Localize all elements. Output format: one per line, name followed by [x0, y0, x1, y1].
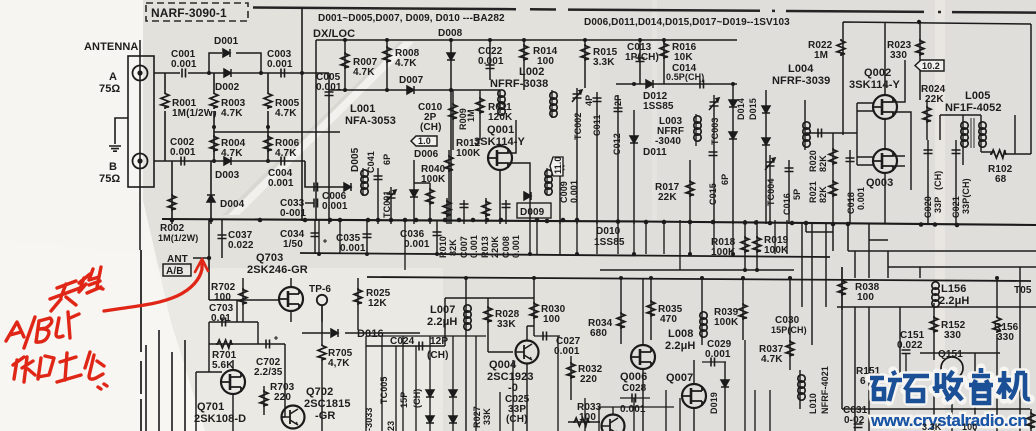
svg-text:330: 330 [944, 330, 961, 341]
capacitor C030 [771, 315, 807, 335]
svg-text:5P: 5P [792, 189, 802, 200]
wire R701 row [209, 322, 258, 372]
svg-text:Q702: Q702 [306, 386, 333, 398]
capacitor C015 [708, 152, 730, 205]
resistor R028 [484, 298, 520, 345]
svg-text:A/B: A/B [166, 266, 184, 277]
svg-text:100K: 100K [764, 245, 789, 256]
svg-text:L001: L001 [350, 103, 375, 115]
diode D005 [344, 147, 361, 191]
svg-text:D001~D005,D007, D009, D010 ---: D001~D005,D007, D009, D010 ---BA282 [318, 13, 505, 24]
diode D007 [399, 75, 424, 94]
transistor Q006 [620, 278, 655, 431]
svg-text:(CH): (CH) [506, 414, 528, 425]
resistor R020 R021 [808, 133, 837, 224]
tag 1.0 [411, 136, 437, 146]
svg-text:10K: 10K [674, 52, 693, 63]
svg-text:L008: L008 [668, 328, 693, 340]
svg-text:2SK246-GR: 2SK246-GR [247, 264, 308, 276]
svg-text:3.3K: 3.3K [922, 422, 942, 431]
resistor R006 [264, 127, 300, 161]
capacitor C151 [897, 330, 925, 376]
diode D016 [331, 328, 384, 340]
resistor R035 [647, 278, 683, 340]
diode ladder D018 [449, 390, 457, 423]
resistor R151 [856, 366, 881, 387]
svg-text:C018: C018 [846, 192, 856, 214]
svg-text:2SC1815: 2SC1815 [304, 398, 351, 410]
svg-text:330: 330 [890, 50, 907, 61]
node dots top [207, 38, 735, 163]
svg-text:1SS85: 1SS85 [643, 101, 674, 112]
svg-text:220K: 220K [490, 236, 500, 258]
svg-text:220: 220 [580, 374, 597, 385]
top border line [253, 8, 1036, 13]
resistor R032 [567, 356, 603, 400]
svg-text:33K: 33K [497, 319, 516, 330]
resistor R702 [211, 278, 247, 322]
inductor L006 vertical labels [364, 376, 422, 431]
wire TP6 to D016 row [302, 305, 420, 431]
svg-text:D004: D004 [220, 199, 245, 210]
node rail junction [917, 20, 921, 24]
svg-text:L004: L004 [788, 63, 814, 75]
capacitor C029 [702, 339, 732, 367]
diode D001 [214, 36, 239, 57]
svg-text:0.001: 0.001 [511, 235, 521, 258]
resistor R013 above bus [480, 198, 500, 258]
capacitor C028 [620, 383, 650, 415]
svg-text:2.2/35: 2.2/35 [254, 367, 283, 378]
resistor R018 [711, 220, 749, 270]
red handwriting huan dian ya dian [13, 352, 107, 389]
capacitor C001 [171, 49, 197, 78]
svg-text:NFRF-3038: NFRF-3038 [490, 78, 548, 90]
svg-text:6: 6 [860, 376, 866, 387]
wire TC005 cluster frame [366, 336, 486, 431]
svg-text:1M(1/2W): 1M(1/2W) [158, 233, 198, 243]
wire L005 top [940, 115, 1015, 165]
svg-text:L010: L010 [808, 393, 818, 414]
transistor Q005 [602, 415, 625, 431]
svg-text:33P: 33P [933, 197, 943, 213]
resistor R102 [988, 150, 1031, 185]
wire RF input vertical [301, 8, 303, 221]
svg-text:Q007: Q007 [666, 372, 693, 384]
svg-text:68: 68 [995, 174, 1007, 185]
svg-text:D006: D006 [414, 149, 439, 160]
antenna connector box [128, 56, 154, 187]
capacitor C007 above bus [459, 200, 479, 258]
svg-text:0.001: 0.001 [404, 239, 430, 250]
resistor R019 [753, 220, 789, 270]
svg-text:330: 330 [997, 332, 1014, 343]
svg-text:-3033: -3033 [364, 407, 374, 431]
resistor R015 [581, 40, 618, 88]
svg-text:B: B [109, 161, 117, 173]
main bus line [162, 219, 1036, 225]
svg-text:4.7K: 4.7K [395, 58, 417, 69]
diode D014 chain [729, 84, 746, 224]
resistor R009 [449, 90, 476, 150]
svg-text:Q701: Q701 [197, 401, 224, 413]
diode D009 [517, 192, 551, 218]
inductor L005 [945, 90, 1002, 152]
fold crease top-left [225, 42, 414, 215]
resistor R037 [759, 278, 794, 370]
svg-text:100K: 100K [714, 317, 739, 328]
svg-text:15P(CH): 15P(CH) [771, 325, 807, 335]
resistor corner bottom right [1027, 409, 1035, 431]
capacitor C036 [400, 220, 442, 254]
svg-text:4.7K: 4.7K [221, 108, 243, 119]
svg-text:C015: C015 [708, 183, 718, 205]
wire bottom-left verticals [146, 330, 185, 431]
svg-text:0.001: 0.001 [316, 82, 342, 93]
svg-text:-3040: -3040 [655, 136, 681, 147]
svg-text:100: 100 [962, 422, 977, 431]
white margin wedge bottom-left [138, 0, 196, 431]
ground wire from connector box [115, 118, 128, 144]
svg-text:1M: 1M [466, 109, 476, 122]
svg-text:1P(CH): 1P(CH) [625, 52, 659, 63]
wire bottom edge verticals [500, 336, 770, 431]
wire border lower [140, 250, 142, 431]
svg-text:Q001: Q001 [487, 124, 514, 136]
svg-text:4P: 4P [584, 95, 594, 106]
svg-text:75Ω: 75Ω [99, 173, 120, 185]
capacitor C702 [254, 336, 285, 378]
inductor L003 [655, 114, 701, 147]
capacitor C008 above bus [501, 200, 521, 258]
svg-text:0.001: 0.001 [322, 201, 348, 212]
svg-text:22K: 22K [658, 192, 677, 203]
svg-text:L156: L156 [941, 283, 966, 295]
transistor Q007 [666, 360, 706, 431]
capacitor C014 [666, 63, 704, 89]
svg-text:1.0: 1.0 [418, 136, 431, 146]
svg-text:4.7K: 4.7K [275, 108, 297, 119]
svg-text:D009: D009 [520, 207, 545, 218]
watermark www.crystalradio.cn [870, 411, 1027, 430]
svg-text:4.7K: 4.7K [761, 354, 783, 365]
red handwriting A/B qie [6, 312, 79, 348]
svg-text:D005: D005 [350, 147, 361, 172]
ground [109, 146, 121, 151]
svg-text:L005: L005 [965, 90, 990, 102]
capacitor C002 [170, 137, 196, 166]
capacitor C021 [951, 140, 971, 224]
diode D006 [414, 149, 439, 160]
wire Q703 gate [237, 300, 279, 322]
resistor R016 [660, 40, 697, 84]
svg-text:2.2μH: 2.2μH [427, 316, 457, 328]
svg-text:0.001: 0.001 [856, 187, 866, 210]
inductor L008 [665, 278, 707, 352]
inductor L007 [427, 278, 471, 431]
capacitor C031 [843, 405, 868, 428]
trimmer TC002 [572, 88, 594, 224]
resistor R024 [921, 84, 946, 140]
svg-text:33K: 33K [482, 408, 492, 425]
connector A jack [133, 66, 148, 81]
trimmer TC004 [765, 155, 776, 224]
svg-text:TC002: TC002 [573, 112, 583, 140]
svg-text:100: 100 [543, 314, 560, 325]
resistor R030 [530, 278, 566, 336]
resistor R701 [212, 340, 237, 371]
svg-text:www.crystalradio.cn: www.crystalradio.cn [870, 411, 1027, 430]
resistor R012 [445, 138, 481, 224]
wire D007 row [329, 89, 500, 91]
svg-text:D011: D011 [643, 147, 667, 158]
NARF-3090-1 dashed title box [146, 3, 248, 21]
svg-text:33P(CH): 33P(CH) [961, 178, 971, 214]
diode D004 [207, 161, 245, 224]
inductor L004 [772, 63, 830, 150]
capacitor C027 [534, 332, 581, 358]
svg-text:C012: C012 [612, 133, 622, 155]
diode D012 [643, 80, 674, 112]
transistor Q703 [279, 278, 303, 322]
svg-text:C020: C020 [923, 196, 933, 218]
capacitor C009 [556, 160, 580, 224]
svg-text:0.001: 0.001 [340, 243, 366, 254]
svg-text:100K: 100K [421, 174, 446, 185]
resistor R008 [383, 40, 420, 90]
transistor Q002 [873, 95, 897, 119]
resistor R004 [210, 127, 246, 161]
svg-text:C016: C016 [782, 193, 792, 215]
svg-text:D008: D008 [438, 28, 463, 39]
capacitor C041 [366, 151, 392, 224]
svg-text:120K: 120K [488, 112, 513, 123]
svg-text:0.001: 0.001 [620, 404, 646, 415]
red handwriting tianxian [50, 267, 103, 311]
schematic left border line [139, 40, 141, 250]
svg-text:D014: D014 [736, 98, 746, 120]
resistor R040 [410, 160, 446, 224]
resistor R001 [160, 73, 217, 161]
svg-text:TC004: TC004 [766, 178, 776, 206]
svg-text:15P: 15P [399, 392, 409, 408]
inductor L002 secondary [550, 90, 557, 118]
svg-text:1/50: 1/50 [283, 239, 303, 250]
svg-text:R020: R020 [808, 150, 818, 172]
capacitor C035 [336, 220, 372, 254]
resistor R038 [838, 267, 880, 310]
svg-text:Q003: Q003 [866, 177, 893, 189]
svg-text:(CH): (CH) [412, 389, 422, 408]
wire antenna B line [154, 160, 305, 162]
svg-text:C011: C011 [592, 115, 602, 136]
wire third bus [367, 277, 1031, 281]
svg-text:A: A [109, 71, 117, 83]
wire D001 loop [209, 53, 261, 73]
svg-text:(CH): (CH) [933, 171, 943, 190]
svg-text:82K: 82K [818, 186, 828, 203]
diode D011 [630, 110, 667, 224]
capacitor C018 [846, 150, 867, 224]
svg-text:C021: C021 [951, 196, 961, 218]
resistor R010 above bus [438, 198, 458, 258]
resistor R705 [318, 344, 353, 369]
capacitor C013 [625, 40, 659, 84]
svg-text:L007: L007 [430, 304, 455, 316]
svg-text:0.5P(CH): 0.5P(CH) [666, 72, 704, 82]
resistor R007 [341, 40, 378, 90]
trimmer TC001 [382, 187, 396, 224]
resistor R022 [808, 39, 845, 135]
resistor R014 [520, 40, 558, 90]
svg-text:D001: D001 [214, 36, 239, 47]
svg-text:C024: C024 [390, 336, 415, 347]
svg-text:2.2μH: 2.2μH [665, 340, 695, 352]
svg-text:100: 100 [857, 292, 874, 303]
svg-text:D016: D016 [357, 328, 384, 340]
node dots lower buses [207, 252, 999, 280]
svg-text:10.2: 10.2 [922, 61, 940, 71]
resistor R025 [354, 278, 391, 330]
wire verticals bus to second bus [319, 220, 787, 270]
svg-text:75Ω: 75Ω [99, 83, 120, 95]
svg-text:D010: D010 [596, 226, 621, 237]
label C006 [314, 183, 348, 213]
svg-text:D019: D019 [709, 392, 719, 414]
light vertical crease right [935, 0, 945, 431]
resistor R003 [209, 73, 246, 127]
svg-text:C028: C028 [622, 383, 647, 394]
wire second bus [300, 253, 830, 257]
wire D012 row [616, 83, 737, 85]
connector B jack [133, 154, 148, 169]
svg-text:TC003: TC003 [710, 117, 720, 145]
svg-text:(CH): (CH) [420, 122, 442, 133]
transistor Q151 [938, 349, 963, 379]
resistor R017 [655, 160, 694, 224]
svg-text:R027: R027 [472, 406, 482, 428]
svg-text:6P: 6P [382, 154, 392, 165]
wire L001 tank row [311, 186, 352, 188]
wire mid row [214, 131, 340, 133]
svg-text:R010: R010 [438, 236, 448, 258]
svg-text:NFRF-4021: NFRF-4021 [820, 366, 830, 414]
wire Q701 box [196, 344, 285, 431]
capacitor C016 [782, 160, 802, 224]
red arrow swoosh [104, 259, 208, 311]
resistor R011 [476, 90, 513, 140]
transistor Q001 [474, 124, 526, 224]
svg-text:1SS85: 1SS85 [594, 237, 625, 248]
wire B line drop to C006 row [305, 161, 311, 187]
resistor R152 [930, 316, 966, 341]
capacitor L004 coupling [805, 129, 857, 138]
diode D003 [215, 157, 240, 181]
svg-text:4,7K: 4,7K [328, 358, 350, 369]
capacitor C022 [478, 40, 504, 80]
capacitor C006 leadin [310, 161, 312, 187]
svg-text:L002: L002 [519, 66, 544, 78]
transistor Q004 [487, 341, 539, 395]
resistor R039 [714, 278, 747, 340]
resistor R002 [158, 161, 198, 243]
svg-text:Q002: Q002 [864, 67, 891, 79]
wire Q001 drain [508, 120, 530, 220]
transistor Q701 [194, 370, 246, 425]
svg-text:100K: 100K [456, 148, 481, 159]
diode ladder D017 [426, 390, 434, 423]
capacitor C025 [505, 394, 530, 425]
resistor R027 vertical label [472, 406, 492, 428]
capacitor C024 [366, 336, 449, 361]
svg-text:4.7K: 4.7K [353, 67, 375, 78]
svg-text:Q151: Q151 [938, 349, 963, 360]
svg-text:D003: D003 [215, 170, 240, 181]
svg-text:2.2μH: 2.2μH [939, 295, 969, 307]
svg-text:0.001: 0.001 [171, 59, 197, 70]
transistor Q702 [282, 386, 351, 429]
svg-text:220: 220 [274, 392, 291, 403]
wire Q002 Q003 cascode [857, 60, 911, 224]
capacitor C010 [418, 102, 443, 133]
transistor Q703 labels [247, 252, 308, 276]
inductor L001 [345, 103, 396, 127]
svg-text:DX/LOC: DX/LOC [313, 28, 355, 40]
svg-text:470: 470 [660, 314, 677, 325]
capacitor C033 [280, 198, 318, 219]
svg-text:R013: R013 [480, 236, 490, 258]
diode D010 label [594, 226, 625, 248]
svg-text:TC005: TC005 [379, 376, 389, 404]
svg-text:NF1F-4052: NF1F-4052 [945, 102, 1002, 114]
capacitor C011 [592, 92, 602, 224]
svg-text:T05: T05 [1014, 285, 1032, 296]
test point TP-6 [309, 284, 331, 322]
svg-text:100: 100 [214, 292, 231, 303]
svg-text:C009: C009 [559, 181, 569, 203]
svg-text:D006,D011,D014,D015,D017~D019-: D006,D011,D014,D015,D017~D019--1SV103 [584, 17, 790, 28]
svg-text:4.7K: 4.7K [275, 148, 297, 159]
svg-text:C007: C007 [459, 236, 469, 258]
resistor R023 [887, 39, 924, 61]
svg-text:C008: C008 [501, 236, 511, 258]
capacitor C037 [218, 220, 254, 258]
svg-text:ANTENNA: ANTENNA [84, 41, 138, 53]
transistor Q002 label [849, 67, 901, 91]
capacitor C034 [280, 220, 327, 254]
svg-text:0.022: 0.022 [897, 340, 923, 351]
wire staircase right [806, 223, 1036, 267]
svg-text:23: 23 [386, 421, 396, 431]
svg-text:6P: 6P [720, 174, 730, 185]
svg-text:0.022: 0.022 [228, 240, 254, 251]
svg-text:NARF-3090-1: NARF-3090-1 [151, 6, 227, 20]
svg-text:2SK108-D: 2SK108-D [194, 413, 246, 425]
svg-text:TC001: TC001 [382, 190, 392, 218]
resistor R033 [568, 402, 602, 426]
svg-text:11.0: 11.0 [553, 157, 563, 174]
ANT A/B label [163, 254, 191, 277]
svg-text:1M: 1M [814, 50, 828, 61]
inductor L010 [798, 366, 830, 414]
resistor R034 [588, 278, 625, 344]
tag 11.0 [550, 157, 563, 176]
resistor R703 [260, 382, 295, 415]
diode D019 [709, 362, 729, 431]
svg-text:D015: D015 [748, 98, 758, 120]
svg-text:D007: D007 [399, 75, 424, 86]
inductor L002 tertiary [545, 168, 552, 195]
